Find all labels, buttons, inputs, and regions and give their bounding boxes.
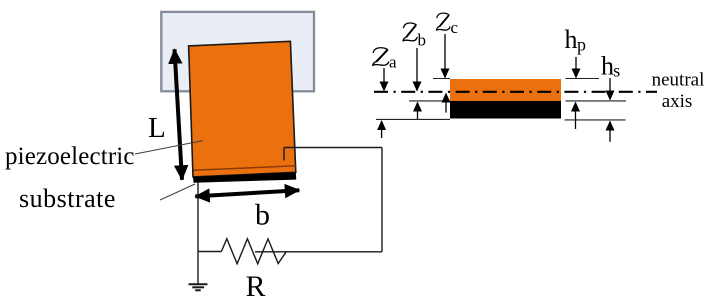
wire to resistor left	[198, 251, 221, 253]
dimension arrow h_p down	[575, 57, 577, 78]
svg-text:p: p	[577, 35, 586, 55]
wire hook into beam	[283, 148, 285, 161]
svg-text:neutral: neutral	[652, 70, 705, 91]
substrate layer (black)	[193, 172, 296, 183]
svg-text:h: h	[601, 52, 614, 81]
svg-text:a: a	[389, 53, 397, 72]
wire from substrate down	[197, 182, 199, 252]
extension line bottom edge left	[376, 118, 450, 120]
electrode boundary line (dark brown)	[194, 166, 296, 171]
svg-text:R: R	[246, 270, 266, 303]
svg-text:s: s	[613, 61, 620, 81]
dimension arrow b	[195, 190, 299, 196]
extension line top edge left	[433, 78, 450, 80]
ground	[189, 284, 208, 290]
resistor R zigzag	[221, 239, 286, 264]
svg-text:piezoelectric: piezoelectric	[5, 143, 135, 170]
extension line bottom edge right	[565, 119, 626, 121]
svg-text:L: L	[148, 112, 166, 144]
cross-section substrate layer (black)	[450, 101, 561, 119]
dimension arrow z_c up	[445, 94, 447, 113]
extension line top edge right	[566, 78, 600, 80]
wire top electrode horizontal	[284, 147, 382, 149]
wire right riser	[381, 148, 383, 252]
dimension arrow h_p up	[575, 103, 577, 130]
label z_c	[436, 13, 449, 30]
label z_b	[403, 23, 417, 41]
neutral axis dash-dot line	[374, 91, 657, 93]
cross-section piezo layer (orange)	[450, 79, 561, 101]
dimension arrow h_s up	[609, 122, 611, 142]
leader line substrate	[160, 184, 195, 200]
dimension arrow h_s down	[609, 78, 611, 100]
label z_a	[373, 48, 389, 66]
dimension arrow z_b up	[417, 103, 419, 120]
extension line interface right	[566, 100, 627, 102]
dimension arrow L	[175, 49, 183, 180]
clamp block	[161, 12, 314, 91]
extension line interface left	[409, 100, 450, 102]
dimension arrow z_a down	[383, 68, 385, 91]
svg-text:b: b	[255, 198, 270, 231]
svg-text:substrate: substrate	[19, 184, 116, 213]
svg-text:b: b	[418, 31, 427, 50]
svg-text:h: h	[565, 25, 578, 54]
leader line piezoelectric	[135, 141, 203, 154]
svg-text:axis: axis	[662, 91, 693, 112]
dimension arrow z_c down	[444, 34, 446, 78]
wire junction to ground	[197, 252, 199, 284]
svg-text:c: c	[451, 18, 459, 37]
piezoelectric layer (orange beam)	[189, 41, 296, 177]
dimension arrow z_b down	[416, 48, 418, 91]
dimension arrow z_a up	[381, 121, 383, 138]
wire resistor to right riser	[255, 251, 382, 253]
